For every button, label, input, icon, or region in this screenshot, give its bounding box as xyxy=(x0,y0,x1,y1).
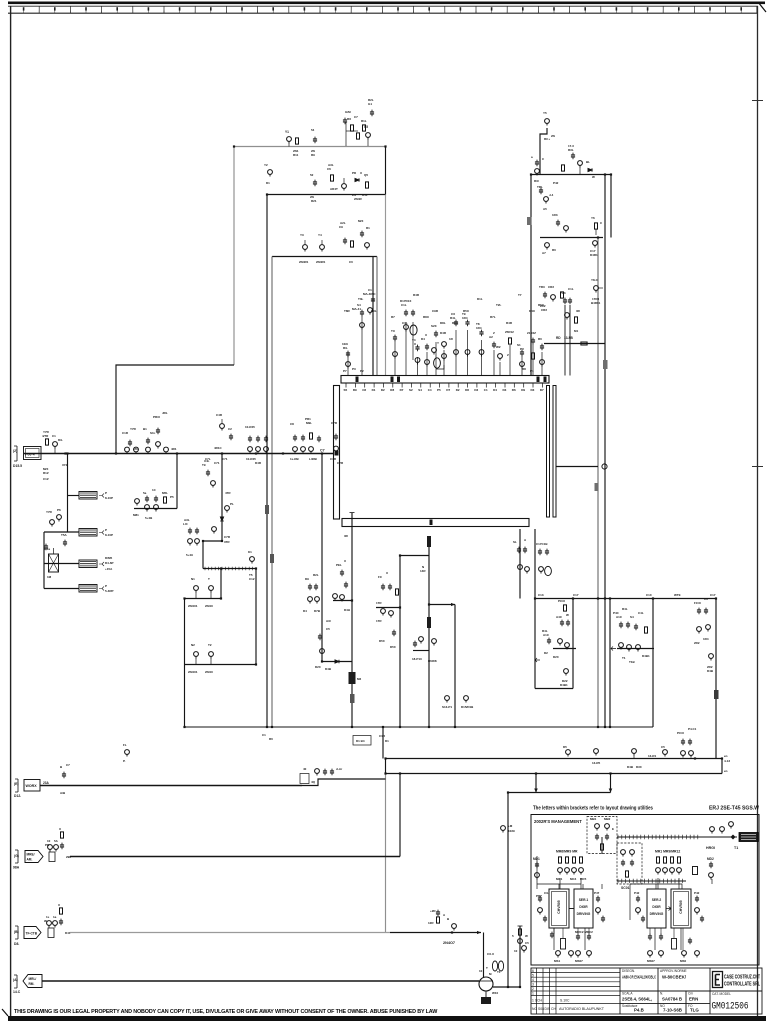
svg-text:D7: D7 xyxy=(540,388,544,392)
svg-text:P2: P2 xyxy=(360,369,364,373)
transistor Q73 xyxy=(315,597,320,604)
transistor Q23a xyxy=(393,352,398,359)
svg-text:DRIVING: DRIVING xyxy=(650,912,664,916)
transistor MD1b xyxy=(535,873,540,880)
svg-text:T1: T1 xyxy=(497,970,501,974)
svg-text:D/M5: D/M5 xyxy=(105,556,112,560)
capacitor MD2 xyxy=(709,862,713,869)
svg-text:Q5: Q5 xyxy=(364,173,368,177)
label Q40 xyxy=(52,434,63,442)
svg-text:D50: D50 xyxy=(379,639,385,643)
svg-text:DISEGN.: DISEGN. xyxy=(622,969,635,973)
crystal X1 xyxy=(561,939,566,950)
transistor Q62 xyxy=(212,527,217,534)
transistor Q96 on bus758 xyxy=(632,749,637,758)
svg-text:2N4O: 2N4O xyxy=(205,670,214,674)
label P6 xyxy=(412,338,416,346)
capacitor C81 xyxy=(523,547,527,554)
connector tab T3 xyxy=(603,360,608,369)
svg-text:1R4: 1R4 xyxy=(703,637,709,641)
wire gate row 2 xyxy=(185,664,258,666)
svg-text:R/L: R/L xyxy=(343,346,348,350)
connector U1 bottom band xyxy=(342,519,529,527)
capacitor MRC2a xyxy=(576,934,580,941)
right border xyxy=(757,6,759,1019)
svg-text:C7: C7 xyxy=(320,449,325,453)
transistor Q68 gate2 xyxy=(194,652,199,664)
svg-text:HRGI: HRGI xyxy=(706,846,715,850)
resistor MR7 xyxy=(566,857,569,863)
svg-text:5a: 5a xyxy=(143,491,147,495)
transistor Q24a xyxy=(404,325,409,332)
svg-text:2N4O7: 2N4O7 xyxy=(443,941,455,945)
label en labels xyxy=(724,754,730,773)
capacitor C99 xyxy=(330,769,334,776)
label C75 xyxy=(378,571,388,579)
connector tab T1 xyxy=(527,217,532,225)
arrow into box1 xyxy=(535,658,540,662)
svg-text:P3: P3 xyxy=(352,367,356,371)
transistor Q25a big xyxy=(410,325,417,335)
svg-text:2N4R: 2N4R xyxy=(354,197,363,201)
svg-text:CTR: CTR xyxy=(337,461,344,465)
sub bus cluster M81 xyxy=(133,488,174,520)
wire B bus corner down xyxy=(483,933,485,978)
svg-text:Y: Y xyxy=(437,341,439,345)
resistor R47 xyxy=(575,317,578,323)
svg-text:D/L: D/L xyxy=(58,438,63,442)
label N14 xyxy=(420,565,426,573)
svg-text:TR3: TR3 xyxy=(539,285,545,289)
transistor Q16 xyxy=(551,295,556,302)
capacitor C91 xyxy=(626,622,630,629)
label C55 xyxy=(330,421,344,465)
label Q3 xyxy=(264,163,270,185)
svg-text:D1: D1 xyxy=(266,181,270,185)
svg-text:D3: D3 xyxy=(531,388,535,392)
svg-text:3Y2: 3Y2 xyxy=(62,463,68,467)
svg-text:A/C: A/C xyxy=(326,619,332,623)
wire Q10 stub xyxy=(540,128,547,175)
transistor Q5 xyxy=(303,240,308,252)
wire sub bus 57R xyxy=(134,508,177,510)
top border thick xyxy=(8,2,765,5)
transistor Q28a xyxy=(432,348,437,355)
svg-text:5: 5 xyxy=(532,974,534,978)
capacitor C76 xyxy=(388,584,392,591)
below-box ground row right xyxy=(648,934,700,958)
svg-text:MD1: MD1 xyxy=(533,857,540,861)
svg-text:DIS: DIS xyxy=(545,1007,551,1011)
svg-text:R11: R11 xyxy=(293,153,299,157)
label Q80 xyxy=(461,705,474,709)
transistor Q24 xyxy=(729,822,734,829)
capacitor C60 xyxy=(145,496,149,503)
svg-text:C8: C8 xyxy=(290,422,294,426)
transistor Q97 xyxy=(663,750,668,757)
label R12 xyxy=(591,216,603,225)
dashed module box 1 xyxy=(587,817,617,854)
transistor Q12R xyxy=(452,924,457,931)
svg-text:D4B: D4B xyxy=(627,765,634,769)
label P2 xyxy=(352,303,361,311)
svg-text:Y2: Y2 xyxy=(264,163,268,167)
resistor network RN1 xyxy=(346,122,358,146)
capacitor C17 xyxy=(538,549,542,556)
transistor Q69 gate2 xyxy=(209,652,214,664)
svg-text:D12.: D12. xyxy=(14,794,21,798)
svg-text:M/X: M/X xyxy=(358,219,363,223)
label F4 xyxy=(99,587,104,591)
wire long vertical pair A2 xyxy=(271,257,273,728)
svg-text:A3L: A3L xyxy=(328,163,334,167)
svg-text:P5: P5 xyxy=(437,388,441,392)
resistor MR1 xyxy=(657,857,660,863)
svg-text:C5: C5 xyxy=(525,941,529,945)
svg-text:SER.2: SER.2 xyxy=(652,898,662,902)
transistor Q50 xyxy=(293,447,298,454)
svg-text:37R: 37R xyxy=(224,540,230,544)
svg-text:L/C: L/C xyxy=(183,522,189,526)
pin group P12 xyxy=(476,322,484,376)
resistor R14 xyxy=(561,292,564,298)
svg-text:C1L: C1L xyxy=(568,287,574,291)
wire top right feed bus xyxy=(530,175,532,376)
wire join left buses xyxy=(385,759,387,774)
transistor MG6 xyxy=(659,951,664,958)
svg-text:M1: M1 xyxy=(574,329,578,333)
svg-text:M2: M2 xyxy=(357,677,361,681)
wire coil feed row4 xyxy=(44,588,79,590)
label Q96 xyxy=(627,765,642,769)
label TP1 xyxy=(123,743,127,763)
wire A row bus xyxy=(42,980,479,982)
svg-text:D8L: D8L xyxy=(440,321,446,325)
transistor Q57 xyxy=(135,499,140,506)
label Q43 xyxy=(143,427,156,435)
resistor R40 xyxy=(564,605,567,611)
wire bus 2N rail xyxy=(272,256,377,258)
wire right edge drop xyxy=(715,599,717,759)
wire long vertical pair C1 xyxy=(597,238,599,727)
svg-text:X: X xyxy=(386,571,388,575)
wire drop SL A xyxy=(519,529,521,599)
svg-text:C5: C5 xyxy=(326,627,330,631)
svg-text:R4X: R4X xyxy=(529,309,535,313)
transistor Q25 xyxy=(621,850,626,857)
svg-text:T1: T1 xyxy=(734,846,738,850)
capacitor C1 xyxy=(313,137,317,144)
label C90 xyxy=(613,607,644,619)
svg-text:S.10C: S.10C xyxy=(560,999,570,1003)
capacitor C70 xyxy=(340,570,344,577)
svg-text:(B): (B) xyxy=(14,930,19,934)
svg-text:T9: T9 xyxy=(202,463,206,467)
svg-text:2N: 2N xyxy=(551,134,555,138)
svg-text:1M: 1M xyxy=(47,575,52,579)
arrow drop2 xyxy=(609,789,613,793)
wire riser 57R xyxy=(176,454,178,509)
pin tick x352 xyxy=(350,512,355,514)
svg-text:PEL: PEL xyxy=(336,563,342,567)
svg-text:P42: P42 xyxy=(694,891,700,895)
svg-text:2R2: 2R2 xyxy=(694,641,700,645)
transistor QG1 xyxy=(48,845,53,852)
capacitor C92 xyxy=(634,624,638,631)
svg-text:D20: D20 xyxy=(315,665,321,669)
svg-text:2N4O: 2N4O xyxy=(205,604,214,608)
label D50 xyxy=(379,639,396,649)
resistor R36 xyxy=(396,589,399,595)
wire drop arrow 2 xyxy=(610,774,612,793)
transistor Q91 xyxy=(627,645,632,652)
transistor PN1b xyxy=(636,908,641,915)
capacitor C55 xyxy=(334,434,338,441)
transistor Q49 xyxy=(264,447,269,454)
label F1 xyxy=(99,494,104,498)
svg-text:1 SCH: 1 SCH xyxy=(532,999,543,1003)
svg-text:PC/X: PC/X xyxy=(558,599,565,603)
pin lug PL2 xyxy=(427,617,431,628)
transistor Q85 xyxy=(558,639,563,646)
svg-text:THIS DRAWING IS OUR LEGAL PROP: THIS DRAWING IS OUR LEGAL PROPERTY AND N… xyxy=(14,1009,438,1015)
wire bus lower rail xyxy=(386,773,723,775)
label bus47R xyxy=(133,447,177,451)
designer cells texts xyxy=(622,969,731,1008)
label Q118 xyxy=(563,745,567,749)
label C5 xyxy=(358,219,370,230)
transistor Q17 right xyxy=(594,286,603,293)
label C47 xyxy=(153,411,168,419)
pin group P2 xyxy=(352,303,364,376)
svg-text:C1: C1 xyxy=(368,288,372,292)
svg-text:1s-RB: 1s-RB xyxy=(290,457,300,461)
svg-text:2: 2 xyxy=(532,987,534,991)
pin lug PL1 xyxy=(427,536,431,547)
label bus r2 xyxy=(534,179,559,189)
label C50 xyxy=(245,425,262,465)
svg-text:en: en xyxy=(724,754,728,758)
label R3 xyxy=(327,163,338,191)
driver box 2 xyxy=(647,889,666,928)
svg-text:18-P13: 18-P13 xyxy=(412,657,422,661)
svg-text:C2: C2 xyxy=(228,427,232,431)
svg-text:C4L: C4L xyxy=(638,611,644,615)
svg-text:D5: D5 xyxy=(563,745,567,749)
wire coil feed row2 xyxy=(44,531,79,533)
capacitor MT2b xyxy=(659,934,663,941)
label D4H xyxy=(326,608,350,631)
wire drop x400b xyxy=(399,774,401,857)
label RB1 xyxy=(44,903,71,935)
svg-text:A/B: A/B xyxy=(60,791,66,795)
label Q12 xyxy=(543,193,554,211)
svg-text:D3L: D3L xyxy=(371,309,377,313)
label C72 xyxy=(305,573,319,581)
capacitor C25 xyxy=(411,310,415,317)
svg-text:C17C1B: C17C1B xyxy=(536,542,548,546)
capacitor C45 xyxy=(128,440,132,447)
connector tab T7 xyxy=(350,694,355,703)
wire net 30 top bus xyxy=(234,147,385,366)
corner mark top right xyxy=(758,2,766,12)
label P14 xyxy=(496,345,501,349)
capacitor MD1 xyxy=(535,862,539,869)
svg-text:M81: M81 xyxy=(133,513,139,517)
label Q67 xyxy=(205,577,214,608)
capacitor C12 xyxy=(556,220,560,227)
transistor Q59 xyxy=(154,505,159,512)
transistor Q37a xyxy=(540,360,545,367)
svg-text:T1: T1 xyxy=(622,656,626,660)
label P18 xyxy=(538,337,542,341)
capacitor C27 xyxy=(425,344,429,351)
pin group P14 xyxy=(496,345,502,376)
connector J2 left xyxy=(13,446,41,468)
svg-text:MS1: MS1 xyxy=(554,959,561,963)
label 17R xyxy=(376,601,382,623)
label comb xyxy=(531,155,545,161)
svg-text:1R3: 1R3 xyxy=(552,213,558,217)
transistor MQ2 xyxy=(565,868,570,875)
svg-text:TF-CTB: TF-CTB xyxy=(26,932,38,936)
label C70 xyxy=(336,559,346,567)
label Q65 xyxy=(248,550,255,581)
arrow diamond ladder1 xyxy=(731,835,736,840)
svg-text:A4C: A4C xyxy=(556,615,563,619)
transistor Q53 xyxy=(334,446,339,453)
transistor Q42 xyxy=(134,447,139,454)
svg-text:C5: C5 xyxy=(364,125,368,129)
transistor Q29a xyxy=(442,342,447,349)
svg-text:C71: C71 xyxy=(214,461,220,465)
svg-text:The letters within brackets re: The letters within brackets refer to lay… xyxy=(533,806,653,812)
label C110 xyxy=(560,287,574,295)
svg-text:5+49: 5+49 xyxy=(186,553,193,557)
pin upper labels xyxy=(343,293,544,373)
label Q66 xyxy=(188,577,198,608)
svg-text:54: 54 xyxy=(311,128,315,132)
svg-text:PC/X: PC/X xyxy=(677,731,684,735)
transistor Q47 xyxy=(248,447,253,454)
capacitor C12R xyxy=(436,910,440,917)
svg-text:T8R: T8R xyxy=(344,309,351,313)
svg-text:T2L: T2L xyxy=(496,303,502,307)
revision table column dividers xyxy=(537,968,557,1014)
svg-text:C7R: C7R xyxy=(224,535,231,539)
transistor Q15 xyxy=(593,241,598,248)
svg-text:C9: C9 xyxy=(339,225,343,229)
resistor R1 xyxy=(296,138,299,144)
label CE10 xyxy=(60,763,70,795)
svg-text:R41: R41 xyxy=(362,193,368,197)
svg-text:D15/D1B: D15/D1B xyxy=(461,705,474,709)
svg-text:D1: D1 xyxy=(385,739,389,743)
label PC/IX xyxy=(677,727,697,735)
svg-text:13-R1: 13-R1 xyxy=(648,754,657,758)
label C17 C18 xyxy=(536,542,548,546)
transistor Q55 xyxy=(57,515,62,522)
capacitor PP2 xyxy=(700,916,704,923)
label D2 xyxy=(352,171,363,201)
bottom border thick xyxy=(8,1016,766,1021)
capacitor C13 xyxy=(543,292,547,299)
svg-text:ERN: ERN xyxy=(689,996,698,1001)
label D7 xyxy=(707,665,714,673)
svg-text:S1L: S1L xyxy=(150,431,156,435)
svg-text:X4L: X4L xyxy=(204,459,210,463)
capacitor C111 xyxy=(568,298,572,305)
wire link 18-P13 xyxy=(413,650,429,652)
capacitor CE1 electrolytic xyxy=(349,672,362,684)
capacitor C64 xyxy=(188,528,192,535)
svg-text:X: X xyxy=(59,827,61,831)
svg-text:13-R5: 13-R5 xyxy=(592,761,601,765)
capacitor PN2 xyxy=(641,916,645,923)
svg-text:R4L: R4L xyxy=(542,629,548,633)
svg-text:CX.X: CX.X xyxy=(487,952,494,956)
capacitor CB1 xyxy=(59,919,63,926)
label P8 xyxy=(431,324,439,345)
wire coil feed row1 xyxy=(68,495,80,497)
transistor Q31a xyxy=(465,350,470,357)
arrow head x455 xyxy=(451,603,455,606)
svg-text:C71: C71 xyxy=(222,457,228,461)
svg-text:RM.: RM. xyxy=(29,982,35,986)
capacitor C98 xyxy=(323,769,327,776)
transistor Q95 xyxy=(709,654,714,661)
svg-text:T2: T2 xyxy=(208,643,212,647)
resistor RB1 xyxy=(60,908,63,914)
capacitor PM2 xyxy=(601,916,605,923)
svg-text:RX: RX xyxy=(347,117,351,121)
svg-text:S4: S4 xyxy=(418,388,422,392)
transistor PP1b xyxy=(695,908,700,915)
svg-text:A1C: A1C xyxy=(616,615,623,619)
label d-Ar xyxy=(303,767,343,784)
ground pad Q110 xyxy=(481,997,491,1004)
svg-text:C1: C1 xyxy=(262,733,266,737)
svg-text:12R: 12R xyxy=(428,921,434,925)
resistor R60 xyxy=(601,844,604,850)
svg-text:T3L: T3L xyxy=(358,297,364,301)
svg-text:en: en xyxy=(724,769,728,773)
svg-text:T: T xyxy=(208,577,210,581)
svg-text:D2: D2 xyxy=(456,388,460,392)
svg-text:D15.5: D15.5 xyxy=(13,464,22,468)
label C4 xyxy=(339,221,346,229)
pin group P5 CD7CDX xyxy=(400,299,417,376)
inset wiring verticals xyxy=(537,879,712,950)
ruler band bottom line xyxy=(8,12,758,14)
transistor MG4 xyxy=(587,951,592,958)
label 12R xyxy=(428,909,450,925)
svg-text:MS07: MS07 xyxy=(575,959,583,963)
svg-text:D4: D4 xyxy=(303,609,307,613)
svg-text:C4: C4 xyxy=(428,388,432,392)
capacitor CG1 xyxy=(60,843,64,850)
transistor Q79 xyxy=(445,696,450,703)
svg-text:C1: C1 xyxy=(52,434,56,438)
transistor Q22a xyxy=(368,308,373,315)
capacitor C77 xyxy=(392,630,396,637)
svg-text:C1: C1 xyxy=(484,388,488,392)
capacitor C20 xyxy=(346,351,350,358)
resistor R5 xyxy=(351,241,354,247)
svg-text:R1: R1 xyxy=(366,226,370,230)
svg-text:Cm: Cm xyxy=(688,991,693,995)
label Q14 xyxy=(542,248,556,255)
